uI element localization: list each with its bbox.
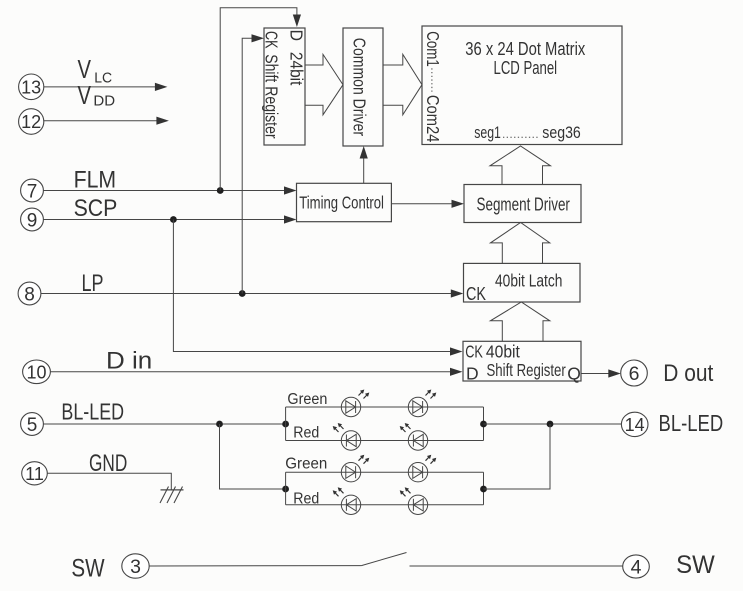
wire green row group 1: [286, 406, 484, 408]
wire BL-LED feed: [44, 423, 286, 425]
svg-text:CK: CK: [261, 31, 281, 49]
block segment driver: [464, 185, 581, 223]
wire VLC: [44, 86, 158, 88]
block timing control: [297, 183, 392, 221]
svg-text:Shift Register: Shift Register: [487, 360, 566, 380]
svg-text:9: 9: [27, 210, 38, 231]
block arrow segment driver to LCD panel: [490, 146, 551, 185]
svg-text:DD: DD: [93, 93, 115, 109]
wire left bracket group 2: [285, 472, 287, 505]
wire D in to 40bit shift register D: [51, 371, 453, 373]
pin 13 (VLC): [19, 74, 44, 100]
svg-text:D in: D in: [106, 347, 152, 374]
svg-text:CK: CK: [465, 342, 483, 362]
svg-text:CK: CK: [466, 284, 486, 304]
wire red row group 1: [286, 440, 484, 442]
svg-text:Green: Green: [285, 456, 327, 473]
svg-text:10: 10: [26, 362, 46, 382]
pin 11 (GND): [22, 462, 48, 485]
wire LP to 40bit latch CK: [41, 293, 453, 295]
svg-text:Green: Green: [287, 391, 327, 408]
svg-text:14: 14: [625, 415, 645, 435]
pin 3 (SW): [122, 554, 149, 578]
svg-text:V: V: [78, 80, 92, 110]
svg-text:11: 11: [25, 464, 44, 484]
wire timing control to segment driver: [391, 203, 453, 205]
svg-text:Red: Red: [293, 425, 319, 442]
LED D2 green: [408, 397, 427, 416]
block common driver: [343, 28, 383, 146]
dotted leader Com1 to Com24: [431, 68, 433, 92]
wire SCP to 40bit shift register CK: [173, 220, 452, 352]
wire GND: [47, 473, 171, 490]
svg-text:SW: SW: [676, 551, 715, 579]
svg-text:6: 6: [629, 363, 640, 385]
svg-text:8: 8: [24, 284, 35, 305]
wire Q to D out: [581, 373, 611, 375]
svg-text:3: 3: [130, 556, 141, 578]
svg-text:12: 12: [21, 112, 41, 132]
svg-text:Common Driver: Common Driver: [350, 38, 370, 136]
pin 8 (LP): [18, 282, 41, 305]
LED D6 green: [408, 463, 427, 482]
wire BL-LED feed to group 2: [220, 424, 286, 489]
svg-text:40bit: 40bit: [486, 342, 520, 362]
svg-text:36 x 24 Dot Matrix: 36 x 24 Dot Matrix: [465, 38, 586, 59]
LED D7 red: [341, 495, 360, 514]
svg-text:Com1: Com1: [423, 31, 443, 67]
wire SW left: [149, 565, 361, 567]
switch SW1 blade: [361, 553, 406, 566]
pin 12 (VDD): [19, 109, 44, 135]
svg-text:13: 13: [21, 77, 41, 97]
junction BL-LED feed node: [216, 421, 223, 428]
svg-text:LC: LC: [94, 70, 112, 86]
pin 9 (SCP): [21, 208, 44, 231]
block arrow common driver to LCD panel: [383, 54, 422, 114]
pin 10 (D in): [23, 360, 51, 384]
wire LP to 24bit shift register CK: [242, 38, 253, 293]
wire right bracket group 2: [483, 472, 485, 505]
svg-text:Timing Control: Timing Control: [299, 192, 384, 212]
dotted leader seg1 to seg36: [503, 136, 540, 138]
LED D3 red: [341, 431, 360, 450]
svg-text:FLM: FLM: [74, 166, 117, 193]
wire right bracket group 1: [483, 407, 485, 441]
svg-text:Com24: Com24: [423, 95, 443, 143]
svg-text:BL-LED: BL-LED: [61, 399, 124, 425]
wire group 2 to return: [484, 424, 551, 489]
svg-text:Segment Driver: Segment Driver: [477, 195, 570, 215]
svg-text:SCP: SCP: [74, 195, 118, 222]
wire red row group 2: [286, 504, 484, 506]
svg-text:5: 5: [27, 415, 38, 436]
wire timing control to common driver: [363, 156, 365, 183]
svg-text:D out: D out: [663, 360, 713, 387]
pin 5 (BL-LED): [21, 413, 44, 436]
junction group 2 left node: [282, 486, 289, 493]
svg-text:7: 7: [27, 181, 38, 202]
junction BL-LED return node: [547, 421, 554, 428]
wire FLM to timing control: [44, 190, 287, 192]
wire FLM to 24bit shift register D: [220, 8, 297, 191]
svg-text:BL-LED: BL-LED: [659, 410, 724, 436]
pin 7 (FLM): [21, 179, 44, 202]
wire green row group 2: [286, 471, 484, 473]
svg-text:40bit Latch: 40bit Latch: [495, 271, 562, 291]
pin 14 (BL-LED): [621, 412, 648, 436]
block LCD panel: [422, 26, 622, 145]
wire SCP to timing control: [44, 219, 287, 221]
pin 6 (D out): [621, 360, 648, 386]
LED D5 green: [341, 463, 360, 482]
junction FLM node: [217, 187, 224, 194]
LED D1 green: [341, 397, 360, 416]
svg-text:LP: LP: [82, 270, 104, 297]
svg-text:SW: SW: [71, 555, 105, 583]
block arrow 40bit latch to segment driver: [490, 223, 549, 264]
ground symbol: [161, 489, 184, 491]
LED D8 red: [408, 495, 427, 514]
block 40bit latch: [464, 263, 581, 302]
svg-text:LCD Panel: LCD Panel: [494, 57, 558, 78]
block arrow 40bit shift register to 40bit latch: [490, 302, 549, 341]
svg-text:Shift Register: Shift Register: [261, 54, 281, 139]
wire SW right: [410, 565, 623, 567]
block 24bit shift register: [264, 28, 305, 145]
wire VDD: [44, 120, 159, 122]
svg-text:4: 4: [631, 557, 642, 579]
junction group 1 right node: [480, 421, 487, 428]
pin 4 (SW): [623, 555, 650, 578]
junction SCP node: [170, 216, 177, 223]
LED D4 red: [408, 431, 427, 450]
svg-text:Red: Red: [293, 490, 319, 507]
junction LP node: [239, 290, 246, 297]
block arrow 24bit shift register to common driver: [305, 54, 343, 114]
svg-text:D: D: [286, 30, 306, 41]
svg-text:seg36: seg36: [542, 123, 581, 142]
wire left bracket group 1: [285, 407, 287, 441]
svg-text:D: D: [466, 364, 479, 384]
svg-text:24bit: 24bit: [286, 52, 306, 86]
wire BL-LED return: [484, 423, 622, 425]
svg-text:seg1: seg1: [474, 123, 501, 142]
svg-text:Q: Q: [567, 364, 581, 384]
block 40bit shift register: [463, 341, 581, 381]
junction group 1 left node: [282, 421, 289, 428]
junction group 2 right node: [480, 486, 487, 493]
